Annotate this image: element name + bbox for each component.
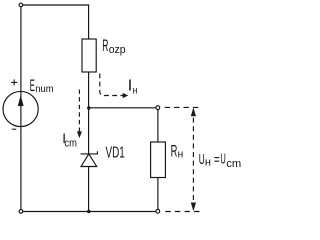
svg-text:н: н [133,85,138,97]
svg-text:U: U [220,150,225,168]
wire node A to output top [89,107,156,109]
wire Rn branch top [157,110,159,142]
wire VD1 to bottom rail [88,167,90,212]
polarity minus [12,128,16,130]
arrow dimension top [191,108,196,117]
svg-text:ozp: ozp [109,44,126,56]
wire left rail [20,7,22,210]
arrow dimension bottom [191,203,196,212]
resistor Rn body [151,142,166,178]
svg-text:I: I [128,78,132,95]
svg-text:н: н [205,157,211,169]
current In dashed path [100,74,123,96]
arrow In head [123,93,129,98]
terminal input bottom [19,210,23,214]
dimension line U dashed [192,109,194,210]
svg-text:VD1: VD1 [106,143,125,161]
svg-text:num: num [35,84,53,96]
diode VD1 cathode bar [81,151,98,154]
svg-text:cm: cm [226,158,241,170]
svg-text:R: R [171,142,178,161]
wire right branch top [88,5,90,40]
svg-text:cm: cm [64,138,76,150]
wire top rail [23,4,89,6]
resistor Rogr body [82,39,96,72]
node A junction dot [87,106,90,109]
polarity plus [11,79,17,85]
diode VD1 triangle [81,154,97,167]
wire Rogr to node A [88,72,90,154]
svg-text:R: R [102,36,108,55]
svg-text:U: U [199,150,205,167]
terminal output top [156,106,160,110]
wire dashed output bottom extension [165,211,202,213]
svg-text:E: E [30,75,35,94]
terminal output bottom [156,209,160,213]
current Ict dashed arrow line [78,90,80,132]
source E1 circle [3,91,38,126]
arrow Ict head [77,131,82,138]
node B junction dot [87,210,90,213]
wire dashed output top extension [165,106,202,108]
svg-text:н: н [178,148,184,160]
wire bottom rail [23,211,156,213]
terminal input top [19,3,23,7]
arrow source E up [18,95,24,106]
wire Rn branch bottom [157,178,159,210]
